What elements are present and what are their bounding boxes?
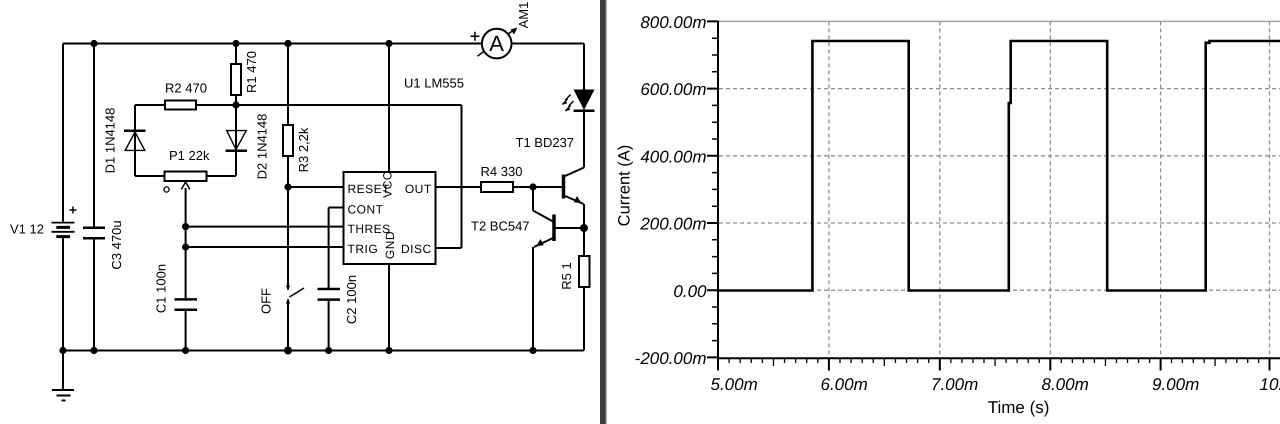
svg-text:DISC: DISC <box>401 242 432 256</box>
svg-text:7.00m: 7.00m <box>931 375 978 394</box>
svg-text:AM1: AM1 <box>516 2 531 29</box>
svg-text:10.0m: 10.0m <box>1260 375 1280 394</box>
svg-text:CONT: CONT <box>348 203 384 217</box>
svg-text:Time (s): Time (s) <box>988 398 1050 417</box>
svg-text:OUT: OUT <box>405 182 432 196</box>
svg-text:TRIG: TRIG <box>348 242 379 256</box>
svg-text:5.00m: 5.00m <box>711 375 758 394</box>
svg-text:OFF: OFF <box>259 288 274 314</box>
svg-text:-200.00m: -200.00m <box>635 349 707 368</box>
svg-text:C3 470u: C3 470u <box>109 220 124 269</box>
svg-text:U1 LM555: U1 LM555 <box>404 76 464 91</box>
svg-text:C2 100n: C2 100n <box>344 275 359 324</box>
svg-text:Current (A): Current (A) <box>615 145 633 227</box>
svg-text:V1 12: V1 12 <box>10 222 44 237</box>
svg-text:A: A <box>489 31 504 56</box>
svg-text:T1 BD237: T1 BD237 <box>516 135 575 150</box>
svg-text:R1 470: R1 470 <box>244 51 259 93</box>
svg-text:6.00m: 6.00m <box>821 375 868 394</box>
svg-text:200.00m: 200.00m <box>639 215 706 234</box>
svg-text:R5 1: R5 1 <box>559 262 574 289</box>
svg-text:R4 330: R4 330 <box>481 164 523 179</box>
svg-text:R2 470: R2 470 <box>165 81 207 96</box>
svg-text:800.00m: 800.00m <box>640 13 706 32</box>
svg-text:T2 BC547: T2 BC547 <box>471 219 530 234</box>
svg-text:R3 2,2k: R3 2,2k <box>296 127 311 172</box>
svg-text:600.00m: 600.00m <box>640 80 706 99</box>
svg-text:C1 100n: C1 100n <box>154 264 169 313</box>
svg-text:D2 1N4148: D2 1N4148 <box>255 114 270 180</box>
svg-text:8.00m: 8.00m <box>1042 375 1089 394</box>
svg-text:D1 1N4148: D1 1N4148 <box>103 108 118 174</box>
svg-text:0.00: 0.00 <box>673 282 707 301</box>
svg-text:P1 22k: P1 22k <box>169 148 210 163</box>
svg-text:GND: GND <box>383 231 397 259</box>
svg-text:400.00m: 400.00m <box>640 147 706 166</box>
svg-text:VCC: VCC <box>381 171 395 198</box>
svg-text:9.00m: 9.00m <box>1152 375 1199 394</box>
